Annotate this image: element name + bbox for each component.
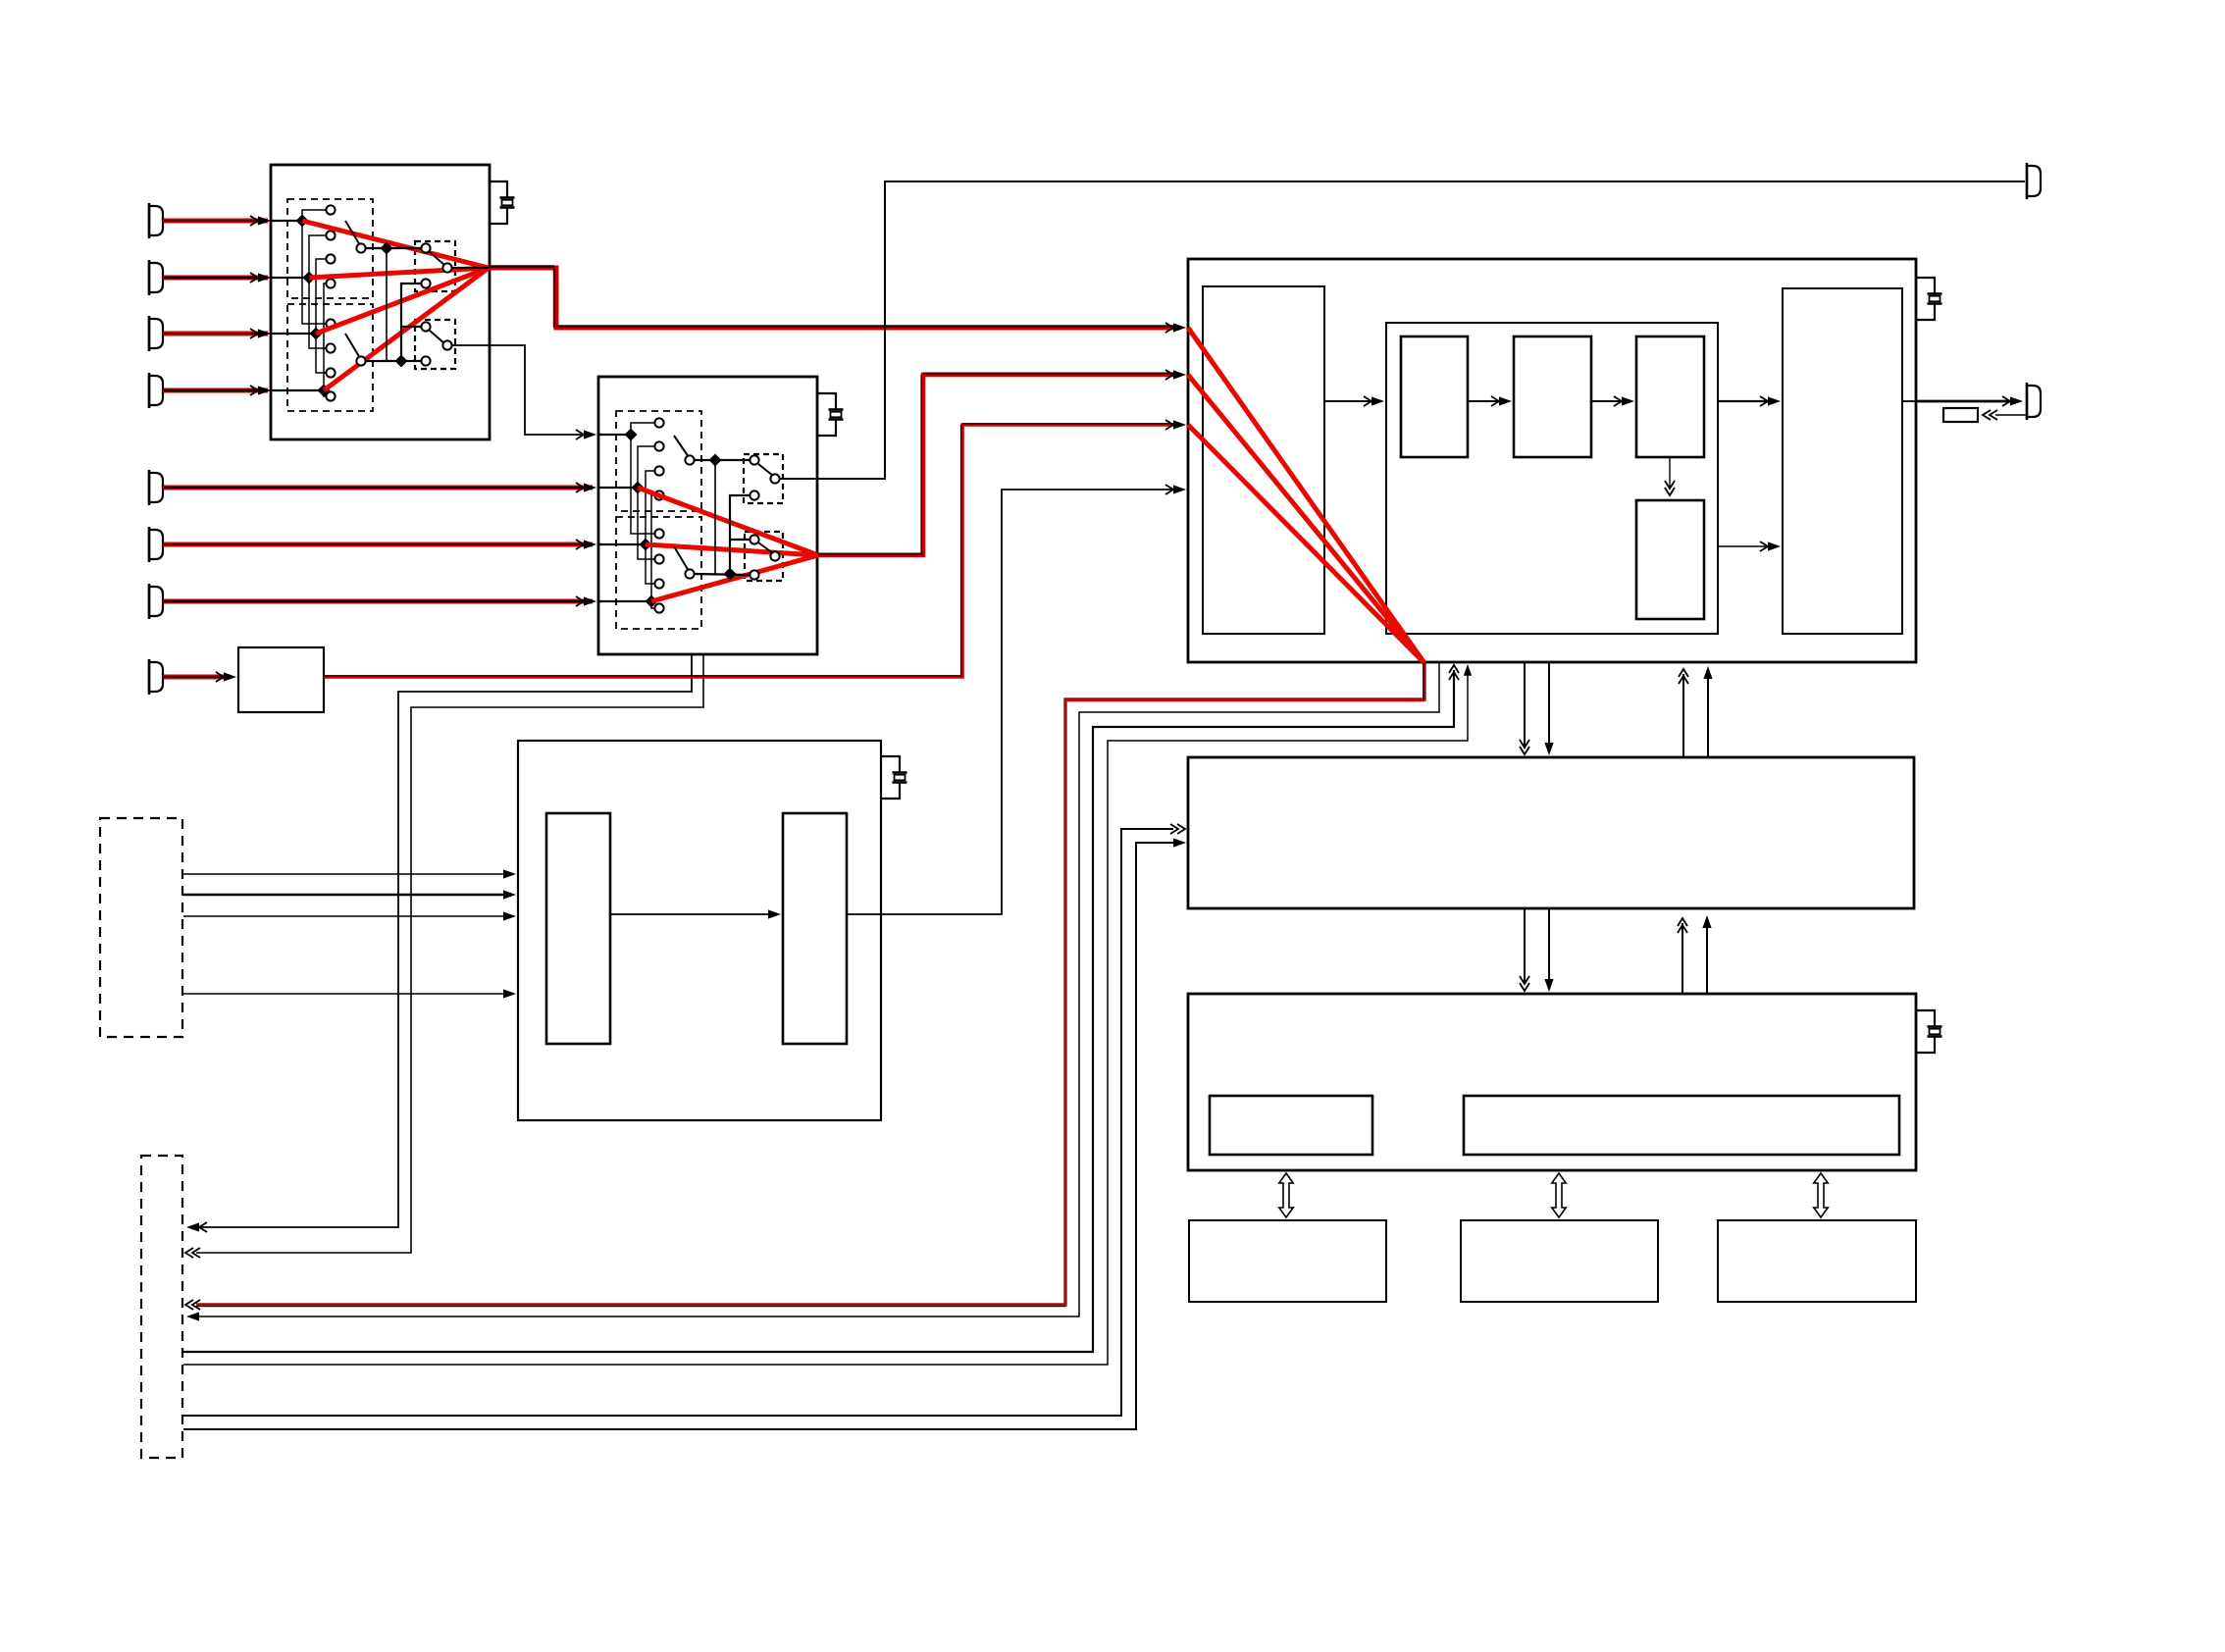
processor box U6 [1188,994,1916,1170]
connector KR1 [2027,166,2041,196]
connector K7 [149,587,163,616]
switch common wire U2-S1 [695,459,750,461]
node diamonds U1 [296,215,309,228]
bus U6 to U5 (up b) [1706,921,1708,994]
sub block U4-B2 [1514,336,1591,457]
sub block U6-A [1210,1096,1372,1155]
node diamond U1-N2 [395,355,408,368]
dashed switch box U2-D [745,532,783,581]
inner input block U4-A [1203,286,1324,634]
vertical link U2-N1 [714,460,716,574]
feedback block FB1 [1943,408,1978,422]
wire U4-B1 to U4-B2 [1468,400,1504,402]
bus U5 to U6 (down a) [1524,908,1526,984]
inner output block U4-C [1783,288,1902,634]
wire K6 to box2 [164,542,593,547]
dashed relay coil group U2-A [616,411,701,511]
dashed switch box U1-D [415,320,455,369]
wire P1 to U3 (b) [183,894,508,897]
wire U2 output to ECU (red) [818,375,1175,555]
control box U3 [518,741,881,1120]
wire U4-B3 to U4-B4 [1669,457,1671,487]
wire P2 to U5 (b) [183,843,1175,1429]
wire U2 pin to connector P2 (b) [196,654,703,1253]
vertical link U1-N2 [401,284,421,361]
memory block M-C [1718,1220,1916,1302]
wire U3 output to ECU [847,490,1175,914]
dashed connector P1 [100,818,182,1037]
switch arm U2-C [758,464,773,476]
contact circle U2-D top [750,535,758,543]
switch output stub U1-C [452,267,489,269]
relay box U2 [598,377,817,654]
dashed relay coil group U2-B [616,517,701,629]
switch arm U2-D [758,542,773,553]
red wire U4 to connector P2 [196,663,1424,1305]
switch common wire U1-S2 [366,360,421,362]
bus U4 to U5 (down b) [1548,662,1550,747]
wire U4-B4 to U4-C [1718,545,1771,547]
red fan wires into U4 [1188,328,1424,663]
entry stubs U1 [271,220,302,222]
dashed relay coil group U1-B [287,304,373,411]
relay coil wiring U1 [302,210,326,221]
wire P2 to U5 (a) [183,829,1173,1416]
switch arm U1-S2 [345,334,360,358]
bus arrow U6 to M-B [1552,1173,1566,1217]
sub block U4-B4 [1636,500,1704,619]
wire KR2 to FB1 [1995,414,2027,416]
inner block U3-A [546,813,610,1044]
node diamonds U2 [625,429,638,441]
wire U3-A to U3-B [610,913,773,915]
switch arm U2-S2 [674,546,689,571]
wire U4 pin to P2 (b) [183,670,1454,1352]
wire U4-B to U4-C [1718,400,1773,402]
wire K5 to box2 [164,486,593,490]
sub block U4-B3 [1636,336,1704,457]
switch common wire U2-S2 [695,574,750,575]
bus U5 to U4 (up b) [1707,674,1709,757]
wire P1 to U3 (d) [183,993,508,995]
crystal X3 on U3 [881,756,900,772]
wire K2 to box1 (IGN2) [164,276,268,281]
module M1 [238,647,324,712]
bus U6 to U5 (up a) [1682,923,1683,994]
connector K4 [149,376,163,405]
connector KR2 [2027,386,2041,417]
wire K4 to box1 (IGN4) [164,388,268,393]
crystal X1 on U1 [490,181,507,197]
dashed connector P2 [141,1156,182,1458]
dashed switch box U1-C [415,241,455,291]
dashed switch box U2-C [744,454,783,503]
red fan wires U2 [638,488,818,555]
vertical link U2-N2 [730,495,750,574]
sub block U4-B1 [1401,336,1468,457]
wire P1 to U3 (a) [183,873,508,875]
wire U4-A to U4-B [1324,400,1376,402]
contact circles U2 [654,418,663,427]
vertical link U1-N1 [386,248,388,361]
inner container U4-B [1386,323,1718,634]
node diamond U2-N2 [724,568,737,581]
dashed relay coil group U1-A [287,199,373,298]
wire K7 to box2 [164,599,593,604]
switch arm U1-D [430,331,444,343]
wire K8 to module M1 [164,675,228,680]
red fan wires U1 [302,221,489,268]
connector K1 [149,206,163,235]
bus U5 to U6 (down b) [1548,908,1550,982]
bus U5 to U4 (up a) [1682,674,1684,757]
inner block U3-B [783,813,847,1044]
wire P1 to U3 (c) [183,915,508,917]
connector K2 [149,263,163,292]
connector K5 [149,473,163,502]
bus arrow U6 to M-C [1814,1173,1828,1217]
connector K6 [149,530,163,559]
contact circle U1-C bottom [421,279,430,287]
interface box U5 [1188,757,1914,908]
switch arm U1-C [430,252,444,265]
ECU box U4 [1188,259,1916,662]
relay box U1 [271,165,490,439]
connector K3 [149,319,163,348]
switch common wire U1-S1 [366,247,421,249]
crystal X2 on U2 [817,393,836,409]
wire U4-B2 to U4-B3 [1591,400,1627,402]
wire U2 to connector KR1 [780,181,2025,479]
wire U1 to U2 [452,345,589,435]
memory block M-B [1461,1220,1658,1302]
sub block U6-B [1464,1096,1899,1155]
switch arm U2-S1 [674,436,689,457]
crystal X5 on U6 [1916,1010,1935,1026]
contact circle U2-C bottom [750,490,758,499]
wire K3 to box1 (IGN3) [164,332,268,336]
node diamond U2-N1 [709,454,722,467]
crystal X4 on U4 [1916,278,1935,293]
wire U4 pin to P2 (c) [183,670,1468,1365]
wire U4 output to connector KR2 [1902,400,1916,402]
wire K1 to box1 (IGN1) [164,219,268,224]
node diamond U1-N1 [381,242,393,255]
contact circle U1-D top [421,322,430,331]
wire U1 output to ECU (red) [489,268,1175,328]
wire M1 output to ECU (red) [324,425,1175,677]
memory block M-A [1189,1220,1386,1302]
wire U2 pin to connector P2 (a) [194,654,692,1227]
wire U4 pin to P2 (a) [194,662,1439,1316]
contact circles U1 [326,205,335,214]
connector K8 [149,662,163,692]
bus U4 to U5 (down a) [1524,662,1526,749]
bus arrow U6 to M-A [1279,1173,1293,1217]
entry stubs U2 [598,434,631,436]
relay coil wiring U2 [631,423,654,435]
switch arm U1-S1 [345,221,360,245]
